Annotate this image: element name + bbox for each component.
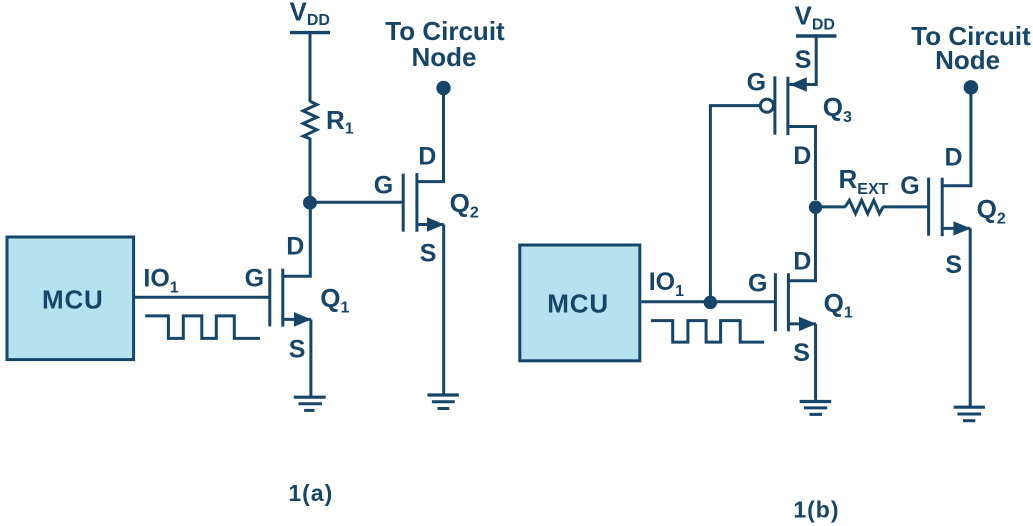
resistor R1 xyxy=(303,101,317,138)
ground Q1 (1b) xyxy=(800,402,832,415)
wire node C to Q1 drain (1b) xyxy=(789,207,816,281)
svg-text:S: S xyxy=(793,339,810,367)
label G pin Q1 (1a) xyxy=(245,265,264,293)
transistor Q2 source tap (1b) xyxy=(944,227,971,230)
svg-text:Q2: Q2 xyxy=(977,194,1006,228)
caption 1(a) xyxy=(288,480,333,506)
svg-text:G: G xyxy=(900,172,919,200)
label Q3 (1b) xyxy=(823,92,852,126)
label MCU (1a) xyxy=(42,284,104,314)
junction node A (1a) xyxy=(303,196,317,210)
label VDD (1b) xyxy=(795,0,835,33)
label Q1 (1b) xyxy=(824,288,853,322)
wire terminal to Q2 drain (1b) xyxy=(944,87,971,185)
svg-text:G: G xyxy=(748,270,767,298)
label To Circuit Node (1a) xyxy=(385,16,505,72)
label G pin Q3 (1b) xyxy=(747,68,766,96)
junction node B (1b) xyxy=(704,296,718,310)
label S pin Q3 (1b) xyxy=(795,46,812,74)
junction node C (1b) xyxy=(809,201,822,214)
svg-text:S: S xyxy=(795,46,812,74)
transistor Q1 source arrow (1b) xyxy=(799,317,816,331)
label S pin Q1 (1a) xyxy=(289,336,306,364)
node terminal dot (1a) xyxy=(436,81,450,95)
label S pin Q1 (1b) xyxy=(793,339,810,367)
svg-text:D: D xyxy=(945,144,963,172)
transistor Q2 gate bar (1b) xyxy=(927,178,930,236)
wire REXT to Q2 gate (1b) xyxy=(883,205,929,208)
svg-text:S: S xyxy=(420,239,437,267)
label G pin Q2 (1b) xyxy=(900,172,919,200)
wire Q2 source to ground (1a) xyxy=(442,225,445,396)
transistor Q2 source arrow (1a) xyxy=(427,217,444,231)
label IO1 (1b) xyxy=(649,268,684,300)
ground Q2 (1b) xyxy=(954,407,985,421)
transistor Q3 gate bubble (1b) xyxy=(760,99,773,112)
svg-text:IO1: IO1 xyxy=(143,265,178,297)
transistor Q2 source arrow (1b) xyxy=(953,221,970,235)
wire Q1 source to ground (1b) xyxy=(814,324,817,402)
square wave signal (1b) xyxy=(651,321,764,343)
transistor Q3 channel bar (1b) xyxy=(786,77,789,135)
label REXT xyxy=(839,164,889,198)
label Q2 (1b) xyxy=(977,194,1006,228)
svg-text:Q3: Q3 xyxy=(823,92,852,126)
svg-text:S: S xyxy=(945,251,962,279)
caption 1(b) xyxy=(793,497,839,523)
transistor Q1 gate bar (1a) xyxy=(268,269,271,327)
transistor Q1 channel bar (1b) xyxy=(787,273,790,331)
label D pin Q3 (1b) xyxy=(793,142,811,170)
svg-text:1(a): 1(a) xyxy=(288,480,333,506)
svg-text:REXT: REXT xyxy=(839,164,889,198)
transistor Q2 channel bar (1b) xyxy=(941,178,944,237)
label IO1 (1a) xyxy=(143,265,178,297)
transistor Q1 gate bar (1b) xyxy=(774,273,777,331)
label S pin Q2 (1b) xyxy=(945,251,962,279)
wire Q2 source to ground (1b) xyxy=(969,228,972,407)
wire bubble to junction node B xyxy=(710,106,760,303)
wire node A to Q2 gate xyxy=(310,201,403,204)
wire VDD rail to R1 xyxy=(309,34,312,102)
transistor Q2 gate bar (1a) xyxy=(402,174,405,232)
power rail VDD (1b) xyxy=(796,34,837,37)
MCU box (1a) xyxy=(7,237,134,360)
label MCU (1b) xyxy=(547,289,609,319)
wire R1 to node A xyxy=(309,138,312,203)
ground Q1 (1a) xyxy=(294,397,326,410)
wire terminal to Q2 drain (1a) xyxy=(418,88,444,182)
wire Q3 drain to node C xyxy=(789,127,815,201)
svg-text:Q1: Q1 xyxy=(824,288,853,322)
MCU box (1b) xyxy=(520,245,640,361)
node terminal dot (1b) xyxy=(964,80,979,95)
svg-text:D: D xyxy=(793,247,811,275)
svg-text:D: D xyxy=(793,142,811,170)
svg-text:Node: Node xyxy=(935,45,1000,75)
power rail VDD (1a) xyxy=(290,31,330,34)
svg-text:S: S xyxy=(289,336,306,364)
svg-text:MCU: MCU xyxy=(547,289,609,319)
wire Q1 source to ground xyxy=(309,319,312,397)
label R1 xyxy=(326,105,354,138)
svg-text:G: G xyxy=(374,171,393,199)
label D pin Q1 (1b) xyxy=(793,247,811,275)
transistor Q2 channel bar (1a) xyxy=(415,173,418,232)
svg-text:D: D xyxy=(286,233,304,261)
label D pin Q2 (1a) xyxy=(418,142,436,170)
svg-text:IO1: IO1 xyxy=(649,268,684,300)
svg-text:Node: Node xyxy=(412,42,477,72)
svg-text:G: G xyxy=(245,265,264,293)
wire MCU to Q1 gate xyxy=(135,296,270,299)
transistor Q1 source tap (1a) xyxy=(283,318,311,321)
label S pin Q2 (1a) xyxy=(420,239,437,267)
svg-text:MCU: MCU xyxy=(42,284,104,314)
label Q1 (1a) xyxy=(320,283,349,317)
svg-text:VDD: VDD xyxy=(795,0,835,33)
label Q2 (1a) xyxy=(450,188,479,222)
svg-text:VDD: VDD xyxy=(290,0,330,29)
svg-text:R1: R1 xyxy=(326,105,354,138)
label VDD (1a) xyxy=(290,0,330,29)
wire node A to Q1 drain xyxy=(283,203,310,277)
label G pin Q1 (1b) xyxy=(748,270,767,298)
svg-text:Q1: Q1 xyxy=(320,283,349,317)
label D pin Q1 (1a) xyxy=(286,233,304,261)
svg-text:G: G xyxy=(747,68,766,96)
square wave signal (1a) xyxy=(145,316,260,339)
wire VDD rail to Q3 source xyxy=(789,38,816,85)
transistor Q1 source tap (1b) xyxy=(789,322,816,325)
transistor Q2 source tap (1a) xyxy=(418,223,444,226)
transistor Q3 gate bar (1b) xyxy=(773,76,776,134)
resistor REXT xyxy=(845,200,883,213)
transistor Q1 source arrow (1a) xyxy=(294,312,311,327)
transistor Q3 source arrow (1b) xyxy=(790,77,807,92)
label D pin Q2 (1b) xyxy=(945,144,963,172)
transistor Q1 channel bar (1a) xyxy=(281,269,284,327)
label G pin Q2 (1a) xyxy=(374,171,393,199)
ground Q2 (1a) xyxy=(427,395,459,409)
wire node C to resistor REXT xyxy=(816,205,846,208)
wire MCU to Q1 gate (1b) xyxy=(641,300,775,303)
svg-text:1(b): 1(b) xyxy=(793,497,839,523)
svg-text:Q2: Q2 xyxy=(450,188,479,222)
svg-text:D: D xyxy=(418,142,436,170)
label To Circuit Node (1b) xyxy=(911,21,1031,75)
